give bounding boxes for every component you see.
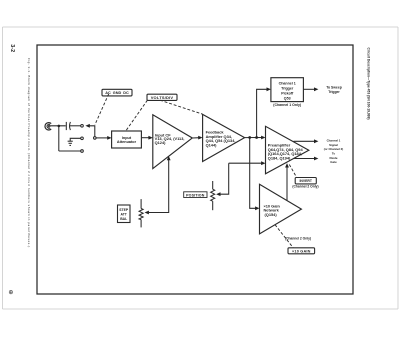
svg-text:Attenuator: Attenuator bbox=[117, 140, 137, 144]
svg-text:Trigger: Trigger bbox=[281, 87, 294, 91]
svg-text:(Channel 2 Only): (Channel 2 Only) bbox=[292, 185, 318, 189]
svg-text:STEP: STEP bbox=[119, 208, 129, 212]
svg-text:Q184, Q194): Q184, Q194) bbox=[268, 156, 291, 161]
svg-text:Trigger: Trigger bbox=[328, 90, 340, 94]
svg-text:⊕: ⊕ bbox=[8, 290, 13, 296]
svg-text:To Sweep: To Sweep bbox=[326, 86, 342, 90]
svg-text:BAL: BAL bbox=[120, 217, 127, 221]
svg-text:Pickoff: Pickoff bbox=[281, 92, 294, 96]
svg-text:Gate: Gate bbox=[330, 160, 337, 164]
svg-text:(Q154): (Q154) bbox=[265, 212, 278, 217]
svg-text:POSITION: POSITION bbox=[186, 193, 205, 197]
svg-text:Q144): Q144) bbox=[206, 142, 218, 147]
svg-text:AC GND DC: AC GND DC bbox=[105, 91, 129, 95]
svg-text:INVERT: INVERT bbox=[299, 179, 312, 183]
svg-text:×10 GAIN: ×10 GAIN bbox=[292, 250, 311, 254]
svg-text:Q124): Q124) bbox=[155, 140, 167, 145]
svg-text:VOLTS/DIV: VOLTS/DIV bbox=[151, 95, 174, 100]
svg-text:Circuit Description—Type 453 (: Circuit Description—Type 453 (SN 100-19,… bbox=[366, 48, 370, 120]
svg-text:Fig. 3-1. Block diagram of Ver: Fig. 3-1. Block diagram of Vertical Prea… bbox=[27, 58, 31, 248]
svg-text:(Channel 2 Only): (Channel 2 Only) bbox=[285, 236, 311, 240]
svg-text:3-2: 3-2 bbox=[9, 44, 15, 52]
svg-text:Q53: Q53 bbox=[284, 96, 291, 100]
svg-text:(Channel 1 Only): (Channel 1 Only) bbox=[273, 103, 301, 107]
svg-text:Channel 1: Channel 1 bbox=[279, 82, 296, 86]
svg-text:ATT: ATT bbox=[121, 212, 128, 216]
